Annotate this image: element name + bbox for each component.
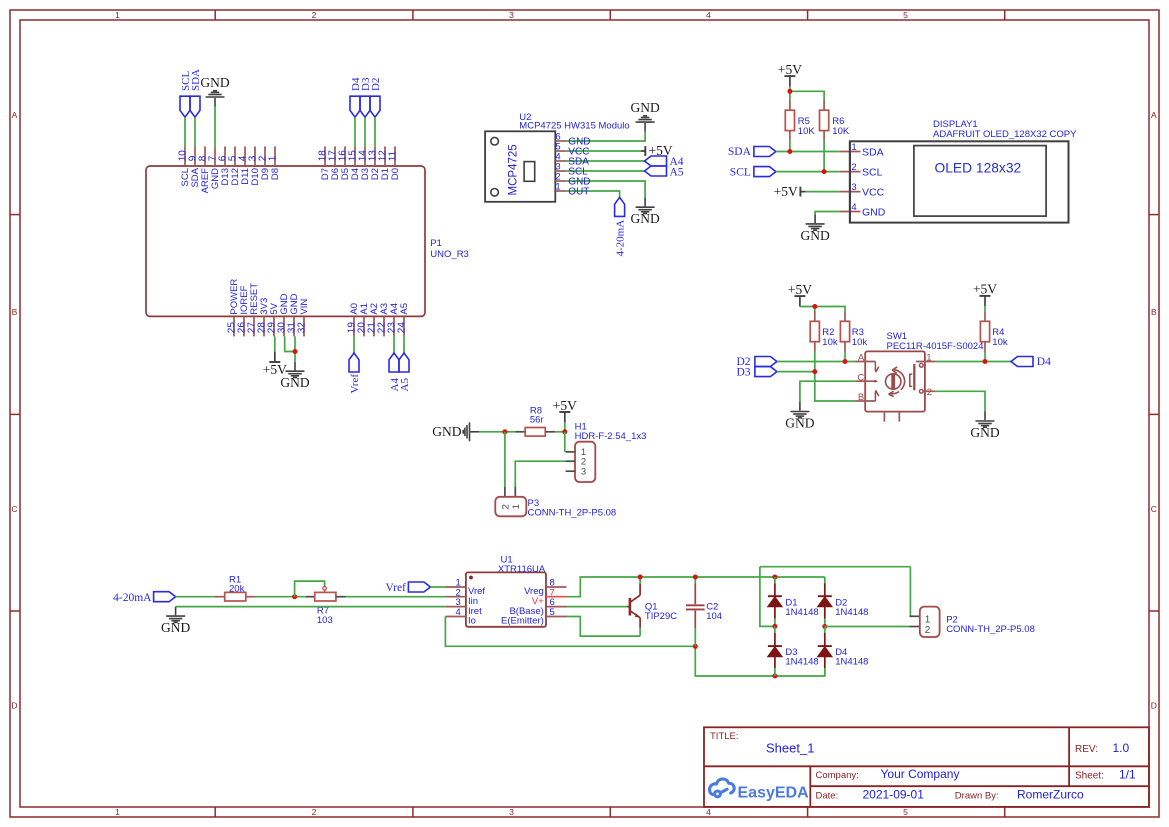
- svg-text:10k: 10k: [992, 337, 1008, 348]
- junction +5V R5: [787, 89, 792, 94]
- net flag A5: [399, 353, 409, 372]
- svg-text:SCL: SCL: [730, 166, 751, 178]
- svg-text:3: 3: [509, 10, 514, 20]
- ground GND top of uno: [206, 91, 225, 107]
- uno pin 19 A0: [353, 316, 355, 336]
- svg-text:2: 2: [501, 504, 512, 509]
- net flag A4: [389, 353, 399, 372]
- svg-text:B: B: [1151, 307, 1157, 317]
- U1 pin 2 Iin: [445, 596, 466, 598]
- H1 pin 3: [566, 470, 575, 472]
- wire +5V to R4: [984, 306, 986, 311]
- svg-text:2: 2: [312, 10, 317, 20]
- svg-text:56r: 56r: [530, 414, 544, 425]
- svg-text:ADAFRUIT OLED_128X32 COPY: ADAFRUIT OLED_128X32 COPY: [933, 129, 1077, 140]
- uno pin 21 A2: [373, 316, 375, 336]
- SW1 pin 2: [923, 390, 935, 392]
- wire SW1 pin2 to GND: [935, 391, 985, 411]
- net flag D4: [350, 96, 360, 117]
- SW1 pin C: [855, 380, 875, 382]
- power +5V above R4: [984, 296, 986, 306]
- diode D4 1N4148: [824, 627, 826, 634]
- svg-text:HDR-F-2.54_1x3: HDR-F-2.54_1x3: [575, 431, 647, 442]
- uno pin 17 D6: [334, 146, 336, 166]
- diode D2 1N4148: [824, 577, 826, 583]
- uno pin 4 D11: [244, 146, 246, 166]
- svg-text:C: C: [11, 504, 17, 514]
- svg-text:Date:: Date:: [816, 791, 839, 802]
- svg-text:2: 2: [927, 387, 932, 398]
- junction Io C2: [693, 644, 698, 649]
- wire SDA to display pin 1: [776, 151, 840, 153]
- wire U1 pin5 to Q1 emitter: [567, 617, 641, 637]
- svg-text:1N4148: 1N4148: [785, 657, 818, 668]
- svg-text:VIN: VIN: [299, 299, 310, 315]
- svg-text:1N4148: 1N4148: [835, 657, 868, 668]
- uno pin 10 SCL: [184, 146, 186, 166]
- power +5V right of U2: [641, 150, 646, 152]
- header H1 HDR-F-2.54_1x3 body: [575, 442, 595, 482]
- diode D1 1N4148: [774, 577, 776, 583]
- svg-text:1: 1: [926, 353, 931, 364]
- svg-text:A5: A5: [399, 303, 410, 315]
- wire +5V to R2 R3 tops: [800, 307, 845, 312]
- svg-text:2021-09-01: 2021-09-01: [863, 788, 925, 802]
- uno pin 1 D8: [274, 146, 276, 166]
- power +5V below uno: [274, 352, 276, 362]
- wire U1 pin6 to Q1 base: [567, 606, 628, 608]
- svg-text:+5V: +5V: [774, 184, 798, 199]
- svg-text:TITLE:: TITLE:: [710, 731, 739, 742]
- display pin 4 GND: [840, 211, 861, 213]
- uno pin 12 D1: [384, 146, 386, 166]
- wire SCL to display pin 2: [776, 171, 840, 173]
- power +5V above R2 R3: [799, 297, 801, 307]
- wire U1 pin3 Iret to GND: [176, 606, 446, 608]
- junction R7 wiper net: [292, 594, 297, 599]
- svg-text:MCP4725 HW315 Modulo: MCP4725 HW315 Modulo: [519, 121, 629, 132]
- wire U2 pin2 to GND: [566, 181, 645, 198]
- svg-text:TIP29C: TIP29C: [645, 611, 677, 622]
- EasyEDA logo: [710, 779, 735, 797]
- display pin 3 VCC: [840, 191, 861, 193]
- uno pin 11 D0: [394, 146, 396, 166]
- svg-text:4: 4: [456, 607, 461, 618]
- svg-text:Sheet_1: Sheet_1: [766, 741, 814, 756]
- svg-text:A: A: [1151, 110, 1157, 120]
- wire GND to R8: [479, 431, 515, 433]
- svg-text:P1: P1: [430, 238, 442, 249]
- uno pin 20 A1: [363, 316, 365, 336]
- display DISPLAY1 body: [850, 141, 1069, 222]
- svg-text:1: 1: [851, 142, 856, 153]
- SW1 pin B: [855, 400, 875, 402]
- svg-text:1N4148: 1N4148: [835, 607, 868, 618]
- H1 pin 1: [566, 451, 575, 453]
- uno pin 6 D13: [224, 146, 226, 166]
- svg-text:5: 5: [903, 807, 908, 817]
- wire U1 pin7 V+ to top rail: [567, 577, 825, 597]
- svg-text:103: 103: [317, 615, 333, 626]
- svg-text:11: 11: [388, 150, 399, 161]
- svg-text:10K: 10K: [832, 126, 850, 137]
- wire Io to bridge bottom: [695, 646, 825, 676]
- uno pin 16 D5: [344, 146, 346, 166]
- svg-text:MCP4725: MCP4725: [507, 144, 519, 195]
- uno pin 3 D10: [254, 146, 256, 166]
- wire pin 24 to A5 flag: [403, 336, 405, 353]
- junction bridge bottom: [772, 674, 777, 679]
- uno pin 27 RESET: [253, 316, 255, 336]
- wire pin 29 to +5V: [274, 336, 276, 351]
- uno pin 28 3V3: [263, 316, 265, 336]
- uno pin 30 GND: [283, 316, 285, 336]
- uno pin 14 D3: [364, 146, 366, 166]
- svg-text:4-20mA: 4-20mA: [113, 592, 152, 604]
- net flag SDA: [190, 96, 200, 117]
- wire U2 pin6 to GND: [566, 132, 645, 141]
- U1 pin 4 Io: [445, 616, 466, 618]
- svg-text:UNO_R3: UNO_R3: [430, 249, 469, 260]
- svg-text:SDA: SDA: [862, 146, 884, 158]
- U2 pin 2 GND: [555, 180, 566, 182]
- svg-text:3: 3: [509, 807, 514, 817]
- svg-text:4: 4: [706, 807, 711, 817]
- SW1 pushbutton symbol: [913, 364, 915, 390]
- wire U2 pin1 OUT to 4-20mA flag: [566, 191, 619, 197]
- uno pin 26 IOREF: [243, 316, 245, 336]
- SW1 pin A: [855, 361, 875, 363]
- net flag SCL: [180, 96, 190, 117]
- uno pin 23 A4: [393, 316, 395, 336]
- svg-text:3: 3: [581, 467, 586, 478]
- wire P3 pin2 net: [504, 432, 506, 487]
- uno P1 UNO_R3 body: [146, 166, 425, 316]
- SW1 rotation arrows: [889, 367, 905, 397]
- wire +5V junction down: [564, 422, 566, 431]
- svg-text:2: 2: [925, 625, 931, 636]
- SW1 encoder contacts: [875, 362, 878, 402]
- svg-text:24: 24: [397, 322, 408, 334]
- wire R3 bottom to D2 net: [844, 352, 846, 362]
- svg-text:OUT: OUT: [568, 187, 589, 198]
- wire D2 to pin 13: [374, 117, 376, 146]
- net flag D2: [370, 96, 380, 117]
- power +5V at display VCC: [800, 191, 805, 193]
- svg-text:2: 2: [851, 162, 856, 173]
- svg-text:10k: 10k: [822, 337, 838, 348]
- wire R5 bottom to SDA net: [789, 140, 791, 151]
- U2 pin 5 VCC: [555, 150, 566, 152]
- svg-text:CONN-TH_2P-P5.08: CONN-TH_2P-P5.08: [946, 624, 1035, 635]
- junction R4 pin1: [983, 359, 988, 364]
- junction SCL R6: [822, 169, 827, 174]
- U2 pin 3 SCL: [555, 170, 566, 172]
- ground GND below encoder left: [790, 402, 809, 418]
- svg-text:1: 1: [115, 10, 120, 20]
- svg-text:2: 2: [312, 807, 317, 817]
- display pin 1 SDA: [840, 151, 861, 153]
- svg-text:B: B: [858, 392, 864, 403]
- svg-text:GND: GND: [630, 211, 659, 226]
- svg-text:GND: GND: [432, 424, 461, 439]
- junction uno GND: [293, 349, 298, 354]
- wire bridge top rail: [760, 566, 911, 568]
- svg-text:4-20mA: 4-20mA: [615, 220, 627, 257]
- wire D3 to R2: [777, 371, 815, 373]
- wire R7 wiper loop: [295, 581, 325, 597]
- wire bridge mid to P2 pin2: [825, 626, 910, 628]
- junction H1 pin1 net: [562, 429, 567, 434]
- wire Vref to U1 pin 1: [430, 586, 445, 588]
- svg-text:+5V: +5V: [788, 282, 812, 297]
- svg-text:+5V: +5V: [553, 398, 577, 413]
- wire to H1 pin 1: [564, 432, 566, 452]
- resistor R3 10k: [844, 312, 846, 322]
- net flag Vref: [349, 353, 359, 372]
- svg-text:Sheet:: Sheet:: [1075, 771, 1104, 782]
- U1 pin 5 E(Emitter): [546, 616, 567, 618]
- svg-text:20k: 20k: [229, 584, 245, 595]
- svg-text:1: 1: [555, 182, 560, 193]
- wire 4-20mA to R1: [176, 596, 215, 598]
- svg-text:GND: GND: [862, 206, 886, 218]
- junction D1 D3 mid: [772, 624, 777, 629]
- svg-text:104: 104: [706, 611, 722, 622]
- net flag A4 at U2: [645, 156, 667, 166]
- wire R1 to R7: [256, 596, 306, 598]
- wire pin 31 GND: [294, 336, 296, 361]
- junction Q1 collector: [638, 575, 643, 580]
- wire U2 pin4 to A4: [566, 160, 644, 162]
- uno pin 2 D9: [264, 146, 266, 166]
- svg-text:A5: A5: [670, 166, 684, 178]
- SW1 pin 1: [916, 361, 935, 363]
- svg-text:VCC: VCC: [862, 186, 885, 198]
- svg-text:C: C: [1151, 504, 1157, 514]
- svg-text:SDA: SDA: [728, 146, 752, 158]
- junction +5V R2: [812, 304, 817, 309]
- wire Q1 emitter down: [639, 628, 641, 636]
- SW1 rotary shaft symbol: [886, 374, 901, 389]
- svg-text:GND: GND: [970, 425, 999, 440]
- svg-text:Vref: Vref: [349, 374, 361, 394]
- resistor R1 20k: [215, 596, 225, 598]
- net flag A5 at U2: [645, 166, 667, 176]
- U2 pin 1 OUT: [555, 190, 566, 192]
- svg-text:C: C: [857, 372, 864, 383]
- svg-text:1N4148: 1N4148: [785, 607, 818, 618]
- svg-text:EasyEDA: EasyEDA: [738, 785, 810, 802]
- svg-text:Vref: Vref: [386, 582, 407, 594]
- uno pin 7 GND: [214, 146, 216, 166]
- power +5V above R5 R6: [789, 77, 791, 87]
- svg-text:Io: Io: [468, 616, 476, 627]
- U1 pin 8 Vreg: [546, 586, 567, 588]
- diode D3 1N4148: [774, 626, 776, 633]
- svg-text:Your Company: Your Company: [881, 767, 960, 781]
- junction D1 top: [772, 575, 777, 580]
- uno pin 9 SDA: [194, 146, 196, 166]
- wire R8 to +5V junction: [555, 431, 565, 433]
- svg-text:A: A: [12, 110, 18, 120]
- uno pin 13 D2: [374, 146, 376, 166]
- svg-text:1/1: 1/1: [1119, 768, 1136, 782]
- svg-text:SCL: SCL: [862, 166, 883, 178]
- svg-text:+5V: +5V: [778, 62, 802, 77]
- uno pin 8 AREF: [204, 146, 206, 166]
- wire R6 bottom to SCL net: [823, 140, 825, 171]
- wire SW1 pin C to GND: [800, 381, 855, 402]
- potentiometer R7 103: [306, 596, 315, 598]
- svg-text:D8: D8: [270, 168, 281, 180]
- wire R2 bottom to D3 net and pin B: [815, 352, 855, 402]
- svg-text:D0: D0: [390, 168, 401, 180]
- wire +5V to R5 R6 tops: [789, 87, 791, 102]
- uno pin 15 D4: [354, 146, 356, 166]
- svg-text:A: A: [858, 353, 865, 364]
- wire U2 pin5 to +5V: [566, 150, 640, 152]
- svg-text:10K: 10K: [798, 126, 816, 137]
- wire Q1 collector to rail: [639, 577, 641, 583]
- wire SCL to pin 10: [184, 117, 186, 146]
- svg-text:D: D: [11, 701, 17, 711]
- op-amp U1 XTR116UA body: [466, 572, 546, 626]
- wire U1 pin4 Io loop: [445, 617, 695, 647]
- junction P3 net: [502, 429, 507, 434]
- svg-text:+5V: +5V: [973, 282, 997, 297]
- svg-text:4: 4: [706, 10, 711, 20]
- uno pin 32 VIN: [303, 316, 305, 336]
- resistor R5 10K: [789, 100, 791, 110]
- svg-text:D2: D2: [370, 78, 382, 91]
- svg-text:1: 1: [511, 504, 522, 509]
- display pin 2 SCL: [840, 171, 861, 173]
- ground GND below encoder right: [976, 412, 995, 428]
- svg-text:GND: GND: [161, 620, 190, 635]
- net flag D4: [1011, 357, 1033, 367]
- uno pin 25 POWER: [233, 316, 235, 336]
- connector P3 CONN-TH body: [504, 487, 506, 497]
- svg-text:5: 5: [903, 10, 908, 20]
- svg-text:Drawn By:: Drawn By:: [955, 791, 999, 802]
- svg-text:GND: GND: [280, 375, 309, 390]
- net flag D3: [360, 96, 370, 117]
- title block: [704, 727, 1149, 807]
- resistor R8 56r: [515, 431, 525, 433]
- svg-text:PEC11R-4015F-S0024: PEC11R-4015F-S0024: [887, 341, 984, 352]
- uno pin 29 5V: [273, 316, 275, 336]
- U1 pin 6 B(Base): [546, 606, 567, 608]
- svg-text:3: 3: [851, 182, 856, 193]
- svg-text:GND: GND: [200, 75, 229, 90]
- wire H1 pin2 to P3 pin1: [515, 461, 565, 486]
- svg-text:CONN-TH_2P-P5.08: CONN-TH_2P-P5.08: [528, 508, 617, 519]
- wire D4 to pin 15: [354, 117, 356, 146]
- H1 pin 2: [566, 460, 575, 462]
- svg-text:GND: GND: [630, 100, 659, 115]
- ground GND below display: [806, 214, 825, 230]
- wire D3 to pin 14: [364, 117, 366, 146]
- ground GND left of R8: [463, 422, 479, 441]
- svg-text:1: 1: [925, 615, 931, 626]
- svg-text:1: 1: [268, 155, 279, 161]
- module U2 MCP4725 body: [485, 131, 555, 202]
- wire SW1 pin1 to D4 flag: [935, 361, 1011, 363]
- wire U2 pin3 to A5: [566, 170, 644, 172]
- svg-text:GND: GND: [800, 228, 829, 243]
- uno pin 5 D12: [234, 146, 236, 166]
- switch SW1 PEC11R-4015F-S0024 body: [865, 351, 925, 411]
- wire pin 30 GND: [285, 336, 295, 351]
- capacitor C2 104: [694, 577, 696, 583]
- wire R4 bottom to pin1 net: [984, 352, 986, 362]
- svg-text:10k: 10k: [852, 337, 868, 348]
- resistor R4 10k: [984, 312, 986, 322]
- svg-text:A5: A5: [399, 378, 411, 392]
- U1 pin 3 Iret: [445, 606, 466, 608]
- ground GND below U2 nets: [636, 198, 655, 214]
- uno pin 31 GND: [293, 316, 295, 336]
- SW1 bottom mounting pins: [883, 412, 885, 422]
- svg-text:1: 1: [115, 807, 120, 817]
- net flag 4-20mA at U2: [615, 197, 625, 216]
- transistor Q1 TIP29C: [627, 606, 629, 608]
- junction D2 R3: [843, 359, 848, 364]
- svg-text:B: B: [12, 307, 18, 317]
- svg-text:D4: D4: [1037, 356, 1051, 368]
- ground GND above U2 nets: [636, 116, 655, 132]
- wire display pin 4 to GND: [815, 212, 840, 215]
- resistor R6 10K: [823, 100, 825, 110]
- svg-text:D3: D3: [736, 366, 750, 378]
- wire R7 to U1 pin 2: [346, 596, 446, 598]
- junction D3 R2: [812, 369, 817, 374]
- svg-text:OLED 128x32: OLED 128x32: [935, 161, 1022, 176]
- wire D2 to SW1 pin A: [777, 361, 855, 363]
- svg-text:Company:: Company:: [816, 770, 859, 781]
- junction C2 top: [693, 575, 698, 580]
- U2 pin 6 GND: [555, 140, 566, 142]
- svg-text:RomerZurco: RomerZurco: [1017, 788, 1084, 802]
- wire pin 19 to Vref flag: [353, 336, 355, 353]
- svg-text:E(Emitter): E(Emitter): [501, 616, 544, 627]
- uno pin 18 D7: [324, 146, 326, 166]
- wire SDA to pin 9: [194, 117, 196, 146]
- svg-text:GND: GND: [785, 416, 814, 431]
- U1 pin 1 Vref: [445, 586, 466, 588]
- wire pin 23 to A4 flag: [393, 336, 395, 353]
- power +5V above H1: [564, 412, 566, 422]
- svg-text:4: 4: [851, 202, 856, 213]
- ground GND below uno: [286, 362, 305, 378]
- uno pin 24 A5: [403, 316, 405, 336]
- wire GND to pin 7: [214, 107, 216, 147]
- svg-text:D: D: [1151, 701, 1157, 711]
- svg-text:1.0: 1.0: [1113, 741, 1130, 755]
- resistor R2 10k: [814, 312, 816, 322]
- wire +5V to display pin 3: [806, 191, 840, 193]
- U1 pin 7 V+: [546, 596, 567, 598]
- junction D2 D4 mid: [822, 624, 827, 629]
- U2 pin 4 SDA: [555, 160, 566, 162]
- connector P2 CONN-TH body: [910, 615, 920, 617]
- svg-text:5: 5: [550, 607, 555, 618]
- svg-text:REV:: REV:: [1075, 744, 1098, 755]
- ground GND below 4-20mA: [166, 607, 185, 623]
- uno pin 22 A3: [383, 316, 385, 336]
- svg-text:32: 32: [297, 322, 308, 334]
